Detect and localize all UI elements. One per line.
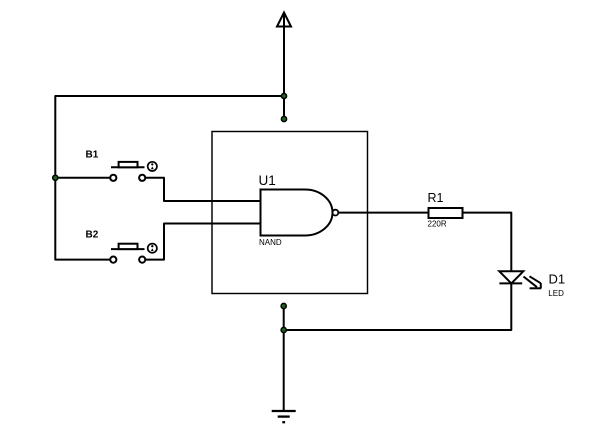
svg-text:U1: U1 [259, 173, 276, 188]
svg-text:B1: B1 [86, 150, 99, 161]
svg-text:220R: 220R [428, 220, 447, 229]
svg-text:D1: D1 [549, 271, 566, 286]
svg-text:B2: B2 [86, 230, 99, 241]
svg-text:R1: R1 [428, 191, 444, 205]
svg-text:NAND: NAND [259, 238, 282, 247]
svg-text:LED: LED [548, 289, 564, 298]
